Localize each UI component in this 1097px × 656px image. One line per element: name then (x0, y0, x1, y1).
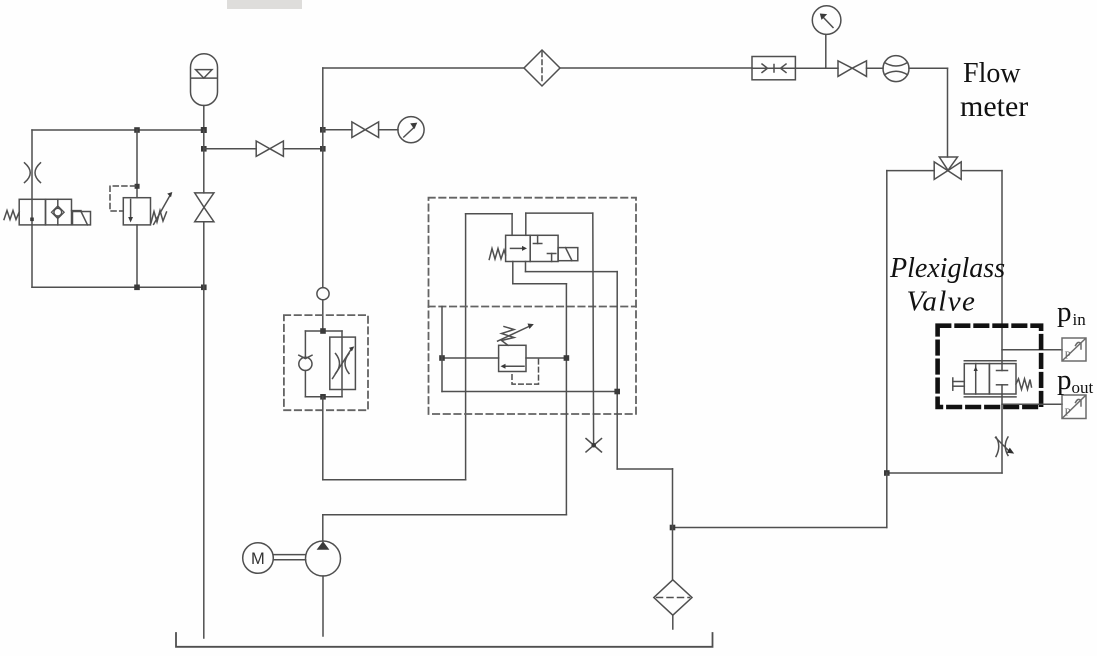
wire y469 to x672 (617, 468, 672, 470)
orifice restrictor on x32 (25, 163, 41, 183)
wire x1002 through PV1 lower to p_out tap (1001, 394, 1003, 473)
wire pump outlet riser (322, 515, 324, 541)
wire left branch vertical x32 (31, 130, 33, 287)
wire gauge branch y130 (323, 129, 352, 131)
wire y170 left of TV1 (887, 170, 934, 172)
svg-text:P: P (1065, 407, 1071, 419)
node at (323,130) (320, 127, 326, 133)
shutoff valve SV4 bowtie (838, 61, 867, 77)
dashed divider y306.5 (429, 306, 637, 308)
flow control dashed enclosure (284, 315, 368, 410)
pressure gauge G2 (812, 6, 841, 35)
wire valve inlet drop (511, 214, 513, 236)
spring of V2 (489, 249, 505, 260)
wire y473 throttle to bypass (887, 472, 1002, 474)
wire valve bottom right port down (525, 262, 527, 272)
valve V1 2/2 solenoid valve body (19, 199, 71, 225)
wire y515 pump line (323, 514, 567, 516)
node at (137,130) (134, 127, 140, 133)
three-way valve TV1 (934, 157, 961, 179)
wire x204 accumulator node to needle valve (203, 130, 205, 193)
shaft coupling motor-pump (274, 555, 306, 560)
solenoid of V2 (558, 248, 578, 261)
wire bypass left vertical x887 (886, 171, 888, 473)
push rod of PV1 (953, 378, 965, 390)
svg-text:P: P (1065, 350, 1071, 362)
wire valve bottom left port down (512, 262, 514, 284)
wire pump suction (322, 576, 324, 636)
solenoid valve V2 body (506, 235, 559, 261)
wire y527 to filter branch (673, 527, 887, 529)
wire x323 into dashed box (322, 300, 324, 331)
wire valve to gauge G1 (379, 129, 398, 131)
wire y149 from node 204 to valve (204, 148, 256, 150)
wire y480 to x466 (323, 479, 466, 481)
spring of PV1 (1016, 379, 1032, 390)
pressure gauge G1 (398, 117, 424, 143)
wire valve outlet up x526 (525, 213, 527, 235)
wire p_in tap (1002, 349, 1062, 351)
wire x204 long vertical to tank (203, 222, 205, 638)
pump P1 (306, 541, 341, 576)
filter F2 (654, 580, 692, 615)
wire valve to flow meter (867, 67, 884, 69)
svg-text:meter: meter (960, 90, 1028, 123)
wire x672 down to filter (672, 469, 674, 580)
main dashed enclosure (429, 198, 637, 414)
wire bus filter to coupling (560, 67, 752, 69)
pressure sensor PS2 (1062, 395, 1086, 419)
node pilot tap (137,186) (135, 184, 140, 189)
plexiglass dashed enclosure (938, 326, 1042, 407)
flow meter FM1 (883, 56, 909, 82)
wire middle branch vertical x137 upper (136, 130, 138, 198)
node at (673,527) (670, 525, 676, 531)
wire flow meter to corner (909, 67, 948, 69)
svg-text:M: M (251, 550, 265, 568)
accumulator A1 (191, 54, 218, 106)
wire middle branch vertical x137 lower (136, 225, 138, 287)
spring of RD1 (502, 327, 515, 346)
wire x323 out of dashed box down (322, 397, 324, 480)
svg-text:Plexiglass: Plexiglass (889, 253, 1005, 284)
wire x617 return drop (616, 272, 618, 469)
svg-text:Flow: Flow (963, 58, 1021, 89)
wire y170 right of TV1 (961, 170, 1002, 172)
spring of RV1 (151, 211, 167, 224)
wire y272 to x617 (526, 271, 618, 273)
wire x887 down to y527 (886, 473, 888, 528)
pilot dashed line of RV1 (110, 186, 136, 211)
shutoff valve SV1 on x204 (195, 193, 214, 222)
throttle valve TH1 on x1002 (996, 437, 1015, 457)
wire x442 from divider to corner (441, 307, 443, 392)
svg-text:pin: pin (1057, 296, 1086, 329)
check valve ball CB1 on x323 (317, 288, 329, 300)
svg-text:Valve: Valve (907, 286, 977, 318)
wire gauge G2 riser (825, 35, 827, 68)
node at (887,473) (884, 470, 890, 476)
wire plexiglass feed x1002 upper (1001, 171, 1003, 364)
scan artifact top left (227, 0, 302, 9)
node at (442,358) (439, 355, 445, 361)
reducing valve RD1 body (499, 345, 526, 371)
wire x566 main pump riser (565, 284, 567, 515)
wire y214 x466 to valve inlet (466, 213, 512, 215)
node at (323,149) (320, 146, 326, 152)
wire y213 x526 to x593 (526, 212, 593, 214)
pilot dashed line of RD1 (512, 359, 539, 384)
wire coupling to valve (795, 67, 838, 69)
wire y391 drain to x617 (442, 391, 617, 393)
node at (204,287) (201, 285, 207, 291)
wire p_out tap (1002, 403, 1062, 405)
electric motor M1 (243, 543, 274, 574)
node at (137,287) (134, 285, 140, 291)
node at (566,358) (564, 355, 570, 361)
shutoff valve SV2 bowtie on y149 (256, 141, 283, 156)
flow control throttle branch rect (330, 331, 356, 397)
wire left top bus y130 (32, 129, 204, 131)
relief valve RV1 body (123, 198, 150, 225)
wire valve to x323 (283, 148, 322, 150)
wire left bottom bus y287 (32, 286, 204, 288)
wire filter to tank (672, 615, 674, 629)
flow control inner bottom wire (305, 396, 342, 398)
quick coupling QC1 (752, 57, 795, 80)
wire x323 vertical top (322, 68, 324, 288)
wire x593 down to plug (592, 213, 595, 445)
shutoff valve SV3 bowtie gauge branch (352, 122, 379, 138)
node at (323,331) (320, 328, 326, 334)
node at (204,130) (201, 127, 207, 133)
wire accumulator to node (203, 106, 205, 131)
wire reducing valve port line y358 (442, 357, 566, 359)
node at (323,397) (320, 394, 326, 400)
wire corner down to 3way valve (947, 68, 949, 157)
flow control check branch (299, 331, 312, 397)
svg-text:pout: pout (1057, 364, 1094, 397)
wire x466 riser (465, 214, 467, 480)
filter F1 (524, 50, 560, 86)
node at (617,391) (614, 389, 620, 395)
pressure sensor PS1 (1062, 338, 1086, 362)
adjust arrow of RD1 (498, 324, 534, 342)
spring of valve V1 (4, 211, 19, 220)
solenoid of valve V1 (72, 211, 91, 225)
node at (204,149) (201, 146, 207, 152)
plugged port X (586, 439, 602, 453)
plexiglass valve PV1 body (964, 361, 1016, 397)
wire top bus left segment (323, 67, 524, 69)
flow control inner top wire (305, 330, 342, 332)
adjust arrow of RV1 (154, 192, 173, 224)
tank T1 (176, 633, 713, 647)
wire y284 to x566 (513, 283, 567, 285)
